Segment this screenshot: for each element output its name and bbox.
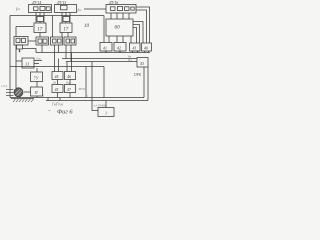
DU16 inner cell 1	[111, 7, 116, 11]
wire long horizontal bus 10	[10, 15, 104, 17]
wire DU14 stub left	[35, 13, 37, 24]
wire R5 bottom arrow	[105, 51, 107, 53]
block R4	[64, 37, 76, 45]
wire DU13 stub right	[69, 13, 71, 24]
wire DU16 to 60 stub 3	[122, 13, 124, 19]
DU16 inner cell 2	[118, 6, 123, 10]
R3 inner cell 1	[53, 39, 57, 43]
wire left vertical bus	[9, 16, 11, 98]
block 43	[137, 58, 148, 68]
svg-text:10: 10	[84, 24, 90, 29]
block DU16	[106, 5, 136, 14]
R4 inner cell 2	[71, 39, 75, 43]
DU14 inner cell 3	[46, 7, 50, 11]
svg-text:~: ~	[48, 109, 51, 114]
wire bus2 to output box	[105, 101, 107, 108]
wire bus2 into 11	[16, 60, 22, 62]
svg-text:11: 11	[25, 62, 29, 67]
output box	[98, 108, 114, 117]
svg-text:МУ07: МУ07	[78, 87, 87, 91]
wire DU14 stub mid	[39, 13, 41, 17]
block 46	[65, 72, 76, 80]
wire 43 bottom to bus2	[147, 67, 149, 101]
arrowhead R1 tab	[19, 51, 20, 53]
block R2	[36, 37, 49, 45]
wire 44 to 45	[57, 80, 59, 85]
wire R3 stub 1	[54, 45, 56, 53]
svg-text:fвч: fвч	[16, 6, 20, 11]
svg-text:fвч: fвч	[78, 7, 82, 12]
svg-text:17: 17	[63, 28, 68, 33]
svg-text:Бч: Бч	[52, 81, 57, 85]
wire DU13 stub mid	[65, 13, 67, 17]
wire DU16 to 60 stub 4	[128, 13, 130, 19]
block 44	[52, 72, 63, 80]
wire bus L3	[66, 61, 137, 63]
R2 inner cell 1	[38, 39, 42, 43]
block 17a	[34, 23, 46, 33]
wire bus10 drop to box 41	[103, 16, 105, 43]
wire 60 right out 2	[133, 25, 140, 44]
wire blob to P	[24, 91, 31, 93]
block DU14	[29, 5, 52, 13]
wire 11 right out 2	[34, 63, 39, 65]
wire fvch to DU16	[84, 8, 106, 10]
bus rung 1	[47, 98, 49, 101]
R2 inner cell 2	[43, 39, 47, 43]
wire R1 tab link to L1	[23, 49, 37, 53]
wire L4 drop 2	[85, 67, 87, 98]
block R1	[14, 37, 28, 46]
wire R3 stub 2	[58, 45, 60, 53]
svg-text:41: 41	[133, 46, 137, 51]
wire 45 to bus	[57, 93, 59, 98]
wire 17b to R4	[67, 33, 69, 38]
wire R2 down to bus	[41, 45, 43, 53]
wire 43 bottom to bus1	[143, 67, 145, 98]
DU14 inner cell 2	[40, 6, 45, 10]
wire R7 bottom arrow 1	[132, 51, 134, 53]
block R5	[100, 43, 112, 52]
arrowhead R7a	[132, 51, 134, 53]
wire 17a to R2	[39, 33, 41, 38]
wire bottom bus 2	[46, 100, 148, 102]
block DU13	[55, 5, 77, 13]
svg-text:Gт: Gт	[36, 57, 41, 61]
wire R1 link to R2	[28, 40, 36, 42]
wire L4 drop	[103, 67, 105, 98]
wire bus to 46 pin2	[71, 53, 73, 72]
sensor blob	[14, 88, 23, 97]
DU16 inner cell 3	[125, 7, 130, 11]
wire R6 bottom arrow	[119, 51, 121, 53]
wire bus to R3 left pin	[52, 16, 54, 38]
wire 60 bottom stub to R7	[130, 36, 132, 43]
wire R4 drop 2	[70, 45, 72, 62]
wire R7 bottom arrow 2	[137, 51, 139, 53]
svg-text:1: 1	[105, 111, 107, 116]
wire L3 drop to output box	[92, 62, 98, 111]
svg-text:42: 42	[117, 45, 121, 50]
arrowhead R5	[105, 51, 107, 53]
wire a1 to 17a	[39, 22, 41, 24]
wire 46 to 47	[69, 80, 71, 85]
wire R1 tab stub	[19, 49, 21, 52]
wire bus to 44 pin1	[54, 53, 56, 72]
wire P to bus	[36, 96, 38, 98]
wire DU16 to 60 stub 1	[110, 13, 112, 19]
wire DU13 stub left	[61, 13, 63, 24]
svg-text:45: 45	[55, 88, 59, 92]
wire DU16 to 60 stub 2	[116, 13, 118, 19]
svg-text:60: 60	[115, 25, 121, 31]
input tick 2	[6, 92, 14, 94]
wire 17b to R3	[61, 33, 63, 38]
block R8	[142, 43, 152, 51]
wire into 17a from left	[16, 27, 33, 37]
wire 60 right out 3	[133, 28, 137, 44]
wire 11 to TU	[36, 68, 38, 72]
bus rung 2	[59, 98, 61, 101]
block R3	[51, 37, 63, 45]
wire bus L1	[36, 52, 150, 54]
coupling box a1	[37, 17, 44, 22]
svg-text:Пч: Пч	[127, 58, 132, 62]
svg-text:40: 40	[144, 46, 148, 51]
wire 47 to bus	[69, 93, 71, 98]
svg-text:к СП-6М: к СП-6М	[94, 103, 106, 107]
wire bus L2	[62, 58, 137, 60]
wire bottom bus 1	[10, 97, 144, 99]
R1 inner cell 1	[16, 38, 20, 42]
wire TU to P	[36, 82, 38, 88]
arrowhead R6	[119, 51, 121, 53]
wire 60 bottom stub to R6 right	[122, 36, 124, 43]
wire bus to 44 pin2	[58, 59, 60, 72]
input tick 1	[6, 89, 14, 91]
ground bar	[11, 98, 34, 100]
DU13 inner cell	[61, 5, 68, 10]
svg-text:ПРК: ПРК	[133, 73, 142, 77]
block 17b	[60, 23, 72, 33]
wire bus L4	[10, 66, 104, 68]
wire 60 bottom stub to R5	[108, 36, 110, 43]
wire R4 drop 1	[65, 45, 67, 59]
svg-text:г.3-1: г.3-1	[1, 84, 8, 88]
block 45	[52, 85, 63, 93]
svg-text:46: 46	[67, 75, 71, 79]
wire 60 bottom stub to R6 left	[116, 36, 118, 43]
wire 60 right out 1	[133, 22, 143, 44]
wire left bus2	[15, 45, 17, 88]
svg-text:ГнГд м: ГнГд м	[51, 103, 63, 107]
wire bus to 46 pin1	[66, 62, 68, 72]
svg-text:17: 17	[37, 28, 43, 33]
R3 inner cell 2	[58, 39, 62, 43]
wire DU14 stub right	[43, 13, 45, 24]
block P	[31, 87, 43, 96]
R1 inner cell 2	[22, 38, 26, 42]
wire DU16 wrap right inner	[136, 10, 147, 43]
arrowhead R7b	[137, 51, 139, 53]
svg-text:ДУ13: ДУ13	[56, 0, 66, 5]
block 11	[22, 58, 34, 68]
wire R8 bottom stub 1	[144, 51, 146, 53]
svg-text:41: 41	[103, 45, 107, 50]
block R6	[114, 43, 126, 52]
svg-text:44: 44	[55, 75, 59, 79]
DU14 inner cell 1	[34, 7, 39, 11]
R1 lower tab	[17, 45, 23, 49]
block 47	[65, 85, 76, 93]
coupling box a2	[63, 17, 70, 22]
svg-text:ДУ16: ДУ16	[108, 0, 118, 5]
wire R8 bottom stub 2	[148, 51, 150, 53]
input tick 3	[6, 95, 14, 97]
wire a2 to 17b	[65, 22, 67, 24]
R4 inner cell 1	[66, 39, 70, 43]
block R7	[130, 43, 141, 51]
wire 11 right out 1	[34, 60, 42, 62]
svg-text:43: 43	[140, 61, 144, 66]
wire DU16 wrap right outer	[136, 7, 150, 43]
svg-text:Фиг 6: Фиг 6	[57, 109, 73, 116]
ground hatch	[13, 99, 33, 102]
svg-text:ДУ14: ДУ14	[31, 0, 41, 5]
DU16 inner cell 4	[131, 7, 134, 10]
block 60	[106, 19, 133, 36]
block TU	[31, 72, 43, 82]
